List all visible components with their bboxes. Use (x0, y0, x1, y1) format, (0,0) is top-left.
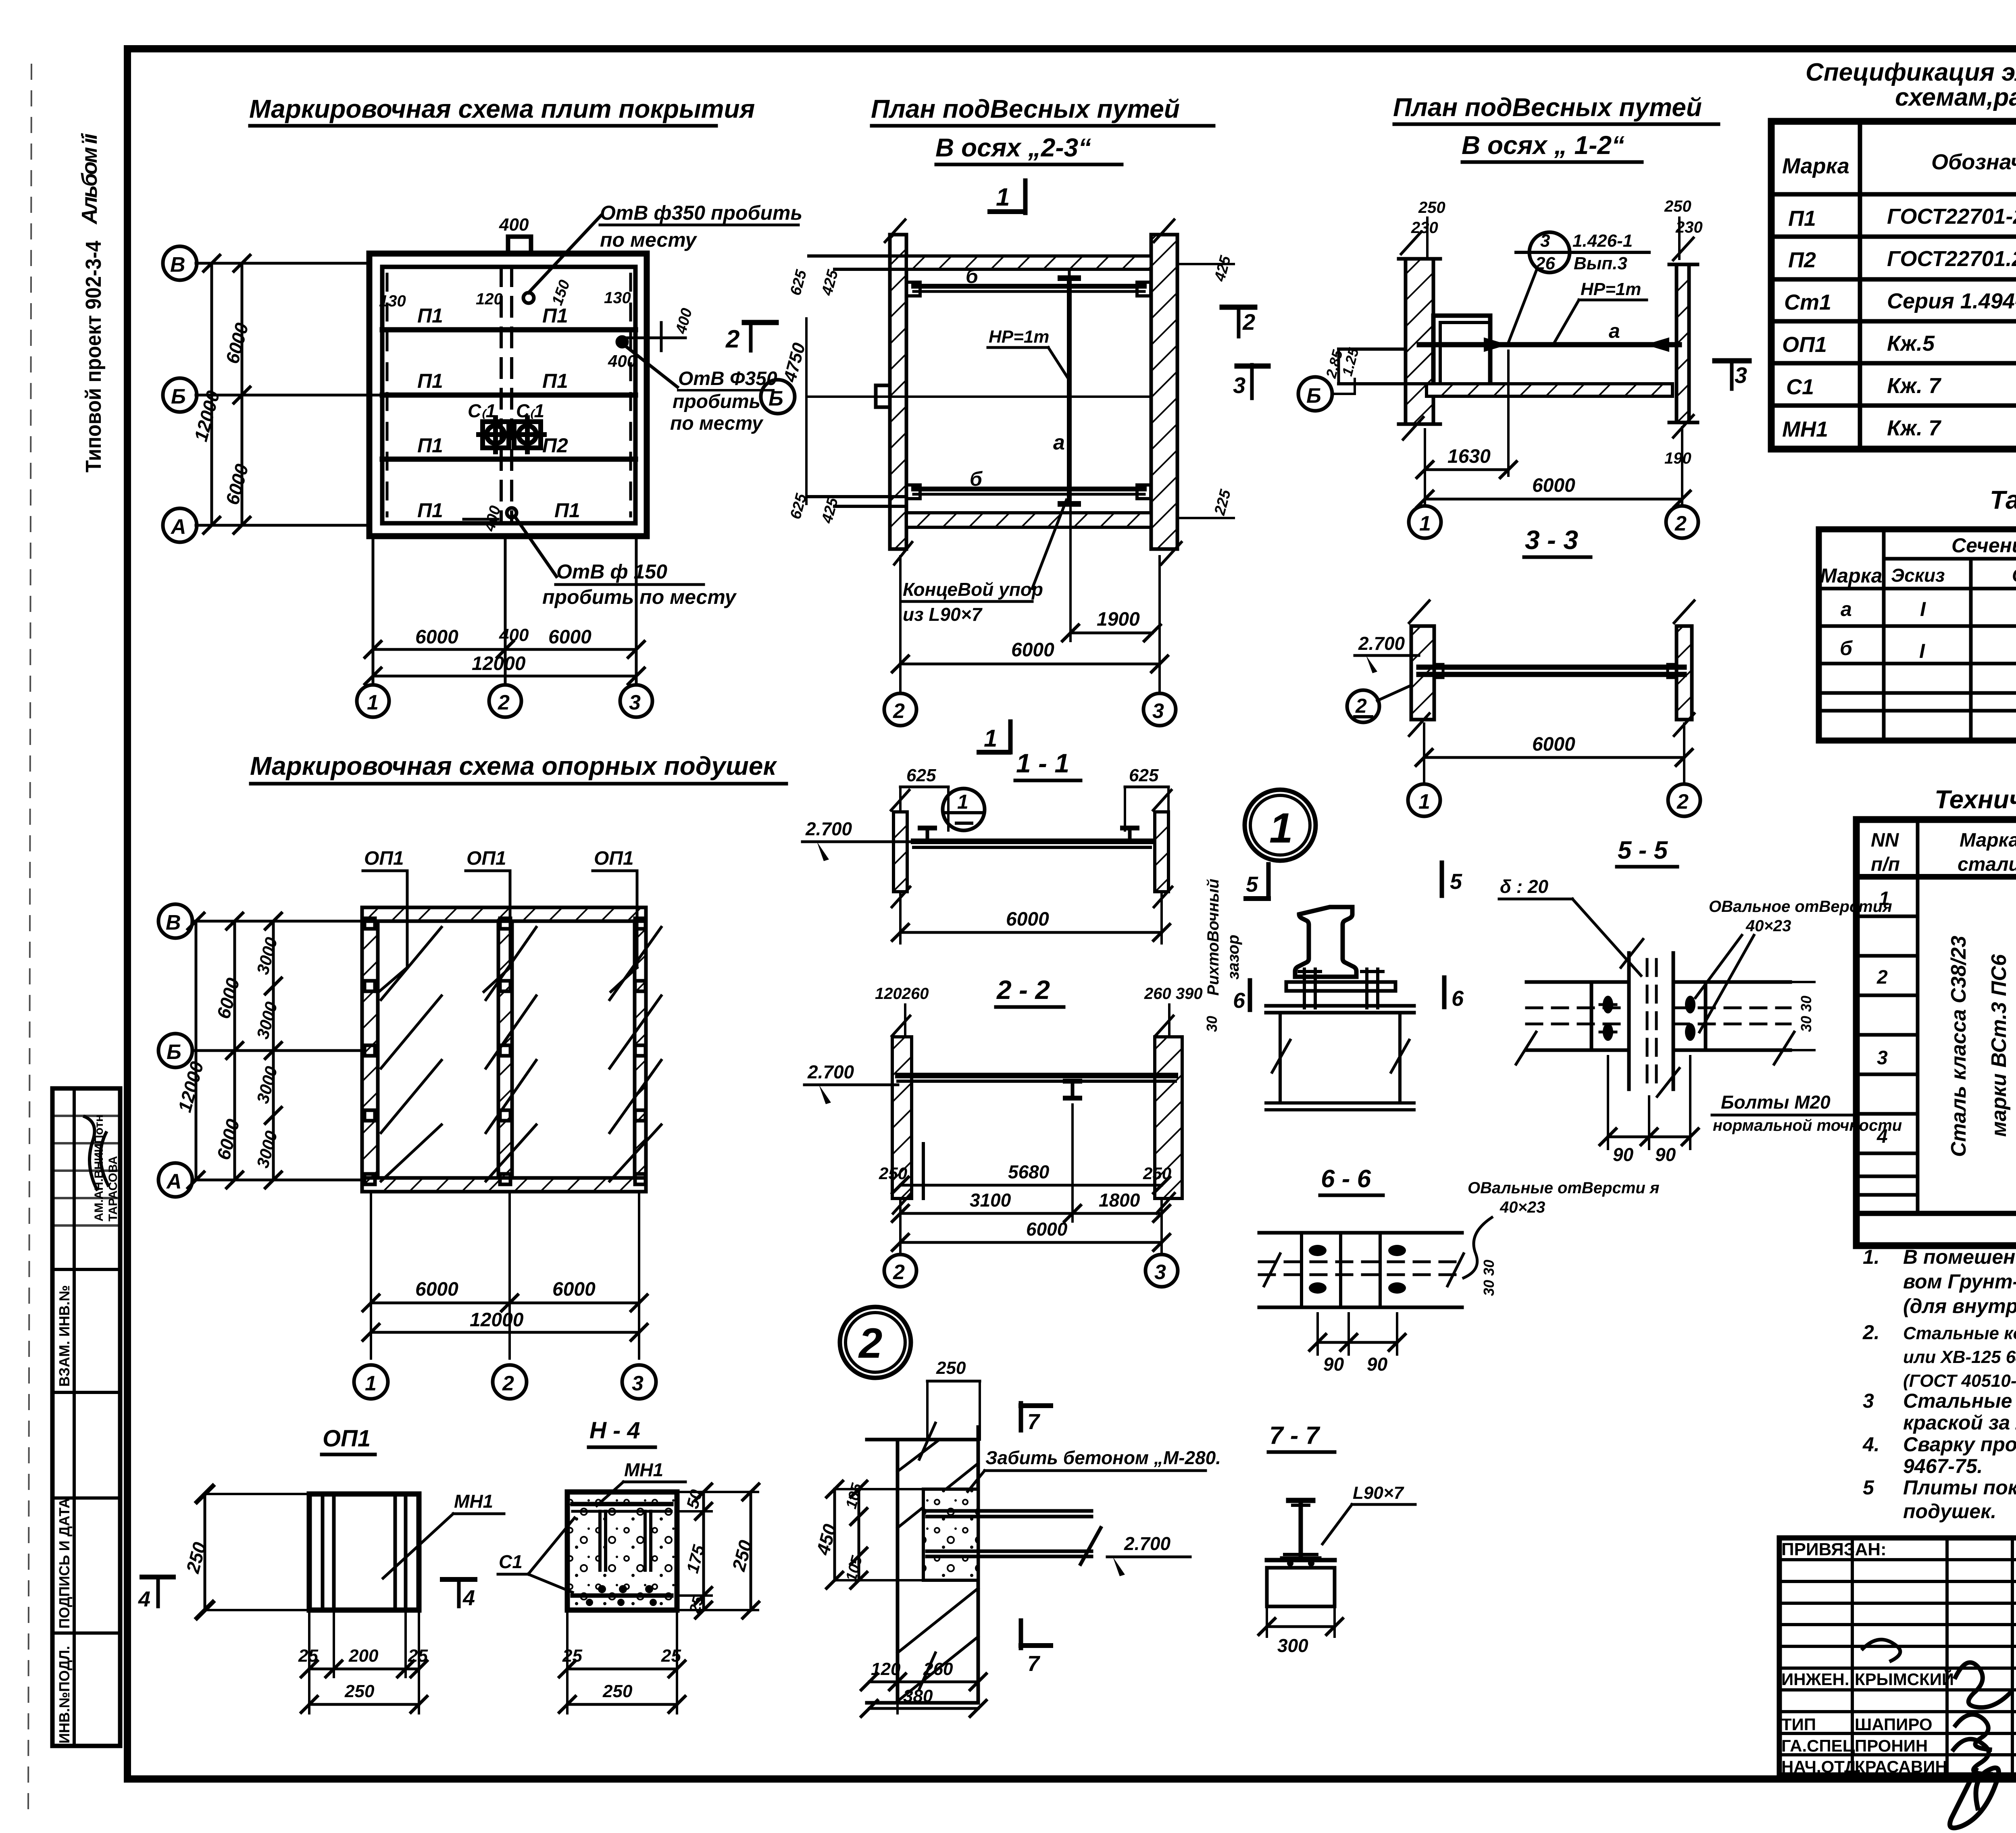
beam top flange (1266, 1004, 1414, 1008)
svg-text:ПРОНИН: ПРОНИН (1855, 1736, 1928, 1755)
bottom dim lines (373, 648, 636, 651)
svg-text:3100: 3100 (970, 1190, 1011, 1211)
vertical monorail beam a (1067, 278, 1072, 504)
svg-text:90: 90 (1367, 1354, 1388, 1375)
svg-text:1: 1 (957, 791, 968, 813)
svg-text:6000: 6000 (221, 320, 252, 366)
svg-text:7 - 7: 7 - 7 (1269, 1422, 1320, 1450)
svg-text:90: 90 (1613, 1144, 1634, 1165)
svg-text:260 390: 260 390 (1144, 985, 1203, 1003)
svg-text:Типовой проект 902-3-4: Типовой проект 902-3-4 (81, 241, 106, 472)
svg-text:5680: 5680 (1008, 1161, 1050, 1182)
svg-text:200: 200 (348, 1646, 379, 1666)
svg-text:250: 250 (879, 1164, 907, 1183)
svg-text:δ : 20: δ : 20 (1500, 876, 1549, 897)
svg-text:А: А (166, 1170, 182, 1193)
left ledge slab (1339, 347, 1406, 351)
svg-text:1: 1 (1269, 805, 1293, 852)
svg-text:ОП1: ОП1 (1782, 333, 1827, 357)
svg-text:МН1: МН1 (454, 1491, 493, 1512)
svg-text:из L90×7: из L90×7 (903, 604, 983, 625)
Б axis (806, 395, 1151, 398)
svg-text:Маркировочная схема плит покры: Маркировочная схема плит покрытия (249, 94, 755, 123)
vertical beam (1627, 953, 1631, 1089)
diagonal leaders inside bays (381, 927, 661, 1181)
svg-text:250: 250 (936, 1358, 966, 1378)
svg-text:230: 230 (1411, 219, 1438, 237)
svg-text:Б: Б (167, 1040, 181, 1064)
svg-text:3: 3 (1540, 231, 1550, 251)
svg-text:6000: 6000 (1026, 1219, 1068, 1240)
plate labels (379, 289, 631, 522)
right 30/30 (1790, 981, 1814, 983)
svg-text:а: а (1841, 598, 1852, 620)
6000 dim (899, 892, 902, 943)
svg-text:Серия 1.494-24: Серия 1.494-24 (1887, 289, 2016, 313)
svg-text:ОтВ ф 150: ОтВ ф 150 (556, 560, 667, 583)
callout circle 1 (943, 789, 985, 830)
svg-text:или ХВ-125 64 слоя (ГОСТ 10144: или ХВ-125 64 слоя (ГОСТ 10144-74) по гр… (1903, 1347, 2016, 1367)
svg-text:вом Грунт-лак КСПЭ В 1слой, по: вом Грунт-лак КСПЭ В 1слой, покрывной сл… (1903, 1270, 2016, 1293)
hole f350 top (523, 293, 534, 303)
bearing pads squares (364, 918, 646, 1184)
svg-text:С1: С1 (499, 1551, 523, 1572)
svg-text:25: 25 (298, 1646, 318, 1666)
svg-text:РихтоВочный: РихтоВочный (1204, 879, 1222, 996)
svg-text:6: 6 (1452, 986, 1464, 1011)
right wall hatched (1677, 264, 1689, 422)
svg-text:П1: П1 (542, 370, 568, 392)
svg-text:1.426-1: 1.426-1 (1572, 231, 1633, 251)
svg-text:I: I (1919, 640, 1925, 662)
svg-text:2: 2 (1876, 967, 1888, 988)
svg-text:400: 400 (673, 306, 696, 336)
svg-text:П1: П1 (1788, 206, 1816, 231)
svg-text:3000: 3000 (253, 935, 281, 976)
svg-text:В осях „2-3“: В осях „2-3“ (935, 133, 1091, 162)
svg-text:3: 3 (632, 1372, 644, 1395)
svg-text:П1: П1 (417, 499, 443, 522)
concrete pocket (923, 1489, 978, 1580)
svg-text:400: 400 (608, 352, 636, 370)
svg-text:1900: 1900 (1097, 609, 1140, 630)
svg-text:П1: П1 (417, 434, 443, 457)
left signature table (1779, 1538, 2016, 1775)
svg-text:NN: NN (1871, 830, 1899, 851)
svg-text:ИНВ.№ПОДЛ.: ИНВ.№ПОДЛ. (56, 1646, 73, 1744)
svg-text:П1: П1 (554, 499, 580, 522)
svg-text:90: 90 (1323, 1354, 1344, 1375)
svg-text:625: 625 (1129, 766, 1159, 785)
svg-text:4750: 4750 (780, 341, 809, 385)
svg-text:2.700: 2.700 (805, 818, 852, 839)
left dims 450/105 (833, 1489, 836, 1580)
bottom slab band hatched (906, 513, 1151, 527)
svg-text:стали: стали (1958, 854, 2016, 875)
svg-text:НР=1т: НР=1т (989, 327, 1049, 347)
svg-text:40×23: 40×23 (1745, 917, 1791, 935)
svg-text:625: 625 (787, 491, 810, 521)
svg-text:6000: 6000 (1006, 909, 1049, 930)
Н-4 dims bottom (566, 1610, 569, 1713)
section marks 2 and 3 right (1222, 305, 1255, 310)
svg-text:12000: 12000 (470, 1309, 524, 1331)
signatures squiggles (1956, 1662, 2010, 1708)
svg-text:ОВальное отВерстия: ОВальное отВерстия (1709, 898, 1892, 915)
svg-text:2: 2 (893, 1261, 905, 1284)
svg-text:Сечение: Сечение (1951, 534, 2016, 557)
svg-text:3: 3 (1152, 699, 1164, 723)
section 7 marks (1019, 1403, 1023, 1430)
6000 dim (1423, 724, 1425, 782)
svg-text:2: 2 (498, 691, 510, 714)
svg-text:2.: 2. (1862, 1321, 1880, 1344)
svg-text:425: 425 (818, 268, 841, 298)
beam web/bottom (1279, 1013, 1282, 1103)
rail profile (1295, 907, 1356, 977)
svg-text:6000: 6000 (212, 976, 244, 1021)
plate under rail (1286, 982, 1395, 991)
svg-text:В помешении хлордозаторной ж.б: В помешении хлордозаторной ж.б. конструк… (1903, 1246, 2016, 1268)
svg-text:6000: 6000 (548, 626, 591, 648)
svg-text:2.700: 2.700 (1124, 1533, 1171, 1554)
svg-text:6000: 6000 (1532, 475, 1575, 496)
svg-text:I: I (1920, 598, 1926, 620)
svg-text:3: 3 (629, 691, 641, 714)
svg-text:425: 425 (818, 495, 841, 525)
svg-text:260: 260 (923, 1659, 953, 1679)
Б circle left of plan C (1298, 377, 1332, 411)
svg-text:3000: 3000 (253, 1129, 281, 1170)
svg-text:краской за 2 раза по огрунтовк: краской за 2 раза по огрунтовке железным… (1903, 1411, 2016, 1434)
dashed center axis double (500, 267, 503, 523)
svg-text:6000: 6000 (552, 1279, 596, 1300)
svg-text:6000: 6000 (1532, 734, 1575, 755)
Н-4 dims right (702, 1492, 705, 1610)
dims bottom (1069, 508, 1072, 641)
svg-text:по месту: по месту (600, 229, 697, 251)
svg-text:2.700: 2.700 (1358, 633, 1405, 654)
svg-text:(для внутренних работ) - 3 сло: (для внутренних работ) - 3 слоя (1903, 1295, 2016, 1317)
svg-text:5: 5 (1863, 1476, 1874, 1499)
pilaster on left wall (876, 385, 890, 407)
top protrusion (508, 237, 531, 254)
bottom dims (370, 1192, 372, 1359)
beam a with arrows (1419, 342, 1679, 347)
svg-text:Б: Б (768, 387, 783, 410)
svg-text:П2: П2 (542, 434, 568, 457)
floor band hatched (1427, 384, 1672, 396)
svg-text:нормальной точности: нормальной точности (1713, 1117, 1902, 1134)
svg-text:В осях „ 1-2“: В осях „ 1-2“ (1462, 131, 1624, 160)
building outline inner (382, 267, 635, 523)
section 4 marks (142, 1575, 173, 1579)
svg-text:ПОДПИСЬ И ДАТА: ПОДПИСЬ И ДАТА (56, 1498, 73, 1629)
svg-text:ГОСТ22701.2-77: ГОСТ22701.2-77 (1887, 247, 2016, 271)
big circled 2 (840, 1307, 911, 1378)
svg-text:схемам,расположенным на листе.: схемам,расположенным на листе. (1895, 83, 2016, 111)
svg-text:а: а (1053, 431, 1065, 454)
svg-text:С₍1: С₍1 (468, 400, 496, 421)
svg-text:КРАСАВИН: КРАСАВИН (1855, 1757, 1947, 1776)
svg-text:5 - 5: 5 - 5 (1618, 836, 1668, 864)
svg-text:6000: 6000 (1011, 639, 1054, 661)
svg-text:30 30: 30 30 (1798, 996, 1814, 1032)
svg-text:5: 5 (1450, 870, 1462, 894)
svg-text:90: 90 (1655, 1144, 1676, 1165)
svg-text:400: 400 (499, 215, 529, 235)
svg-text:3: 3 (1877, 1047, 1888, 1069)
svg-text:п/п: п/п (1871, 854, 1900, 875)
wall (867, 1427, 978, 1703)
svg-text:Кж.5: Кж.5 (1887, 331, 1935, 356)
svg-text:подушек.: подушек. (1903, 1500, 1996, 1523)
top slab band hatched (906, 256, 1151, 269)
svg-text:2: 2 (502, 1372, 514, 1395)
svg-text:2.700: 2.700 (807, 1061, 854, 1082)
svg-text:Сварку производить электродами: Сварку производить электродами типа Э42 … (1903, 1433, 2016, 1456)
svg-text:НАЧ.ОТД.: НАЧ.ОТД. (1781, 1757, 1861, 1776)
svg-text:450: 450 (812, 1522, 840, 1558)
svg-text:Б: Б (1306, 384, 1321, 408)
svg-text:ПРИВЯЗАН:: ПРИВЯЗАН: (1781, 1540, 1887, 1559)
svg-text:ОП1: ОП1 (323, 1425, 371, 1452)
axis circles В Б А (163, 246, 197, 280)
svg-text:МН1: МН1 (1782, 417, 1828, 441)
callout circle 3/26 (1529, 232, 1570, 273)
svg-text:9467-75.: 9467-75. (1903, 1455, 1983, 1477)
svg-text:1800: 1800 (1099, 1190, 1140, 1211)
svg-text:250: 250 (344, 1681, 375, 1701)
walls hatched (362, 907, 646, 921)
svg-text:6000: 6000 (221, 462, 252, 507)
svg-text:Кж. 7: Кж. 7 (1887, 374, 1942, 398)
svg-text:В: В (166, 911, 181, 934)
svg-text:12000: 12000 (472, 653, 526, 674)
left vertical dim lines (210, 263, 213, 525)
svg-text:План подВесных путей: План подВесных путей (1393, 93, 1702, 122)
svg-text:ОВальные отВерсти я: ОВальные отВерсти я (1468, 1179, 1660, 1197)
left dim lines (195, 921, 198, 1180)
svg-text:Спецификация элементов к марки: Спецификация элементов к маркировочным (1806, 58, 2016, 86)
svg-text:а: а (1609, 320, 1620, 342)
svg-text:3 - 3: 3 - 3 (1525, 525, 1578, 555)
svg-text:Вып.3: Вып.3 (1574, 254, 1627, 273)
svg-text:6000: 6000 (415, 1279, 458, 1300)
walls (893, 812, 907, 892)
svg-text:2: 2 (1242, 309, 1255, 335)
svg-text:250: 250 (1418, 199, 1445, 216)
walls (892, 1037, 912, 1198)
svg-text:2: 2 (893, 699, 905, 723)
svg-text:С₍1: С₍1 (516, 400, 544, 421)
axes (192, 920, 362, 923)
top monorail beam б (914, 284, 1144, 289)
right wall hatched (1151, 235, 1177, 549)
svg-text:4.: 4. (1862, 1433, 1880, 1456)
svg-text:6000: 6000 (212, 1117, 244, 1162)
svg-text:марки ВСт.3 ПС6: марки ВСт.3 ПС6 (1987, 954, 2011, 1137)
svg-text:1630: 1630 (1447, 446, 1491, 467)
svg-text:4: 4 (138, 1587, 150, 1611)
svg-text:КРЫМСКИЙ: КРЫМСКИЙ (1855, 1669, 1954, 1689)
svg-text:250: 250 (1664, 198, 1691, 215)
svg-text:План подВесных путей: План подВесных путей (871, 94, 1180, 123)
svg-text:Таблица сечений: Таблица сечений (1990, 485, 2016, 514)
svg-text:3: 3 (1154, 1261, 1166, 1284)
svg-text:Плиты покрытия приварить к зак: Плиты покрытия приварить к закладным дет… (1903, 1476, 2016, 1499)
svg-text:25: 25 (661, 1646, 681, 1666)
svg-text:пробить по месту: пробить по месту (542, 586, 737, 608)
svg-text:1: 1 (367, 691, 379, 714)
4750 dim (805, 318, 808, 504)
svg-text:3: 3 (1233, 372, 1245, 398)
svg-text:1: 1 (996, 183, 1010, 211)
svg-text:26: 26 (1535, 254, 1555, 273)
dims (899, 1198, 902, 1254)
svg-text:4: 4 (462, 1586, 475, 1610)
svg-text:2 - 2: 2 - 2 (996, 975, 1050, 1005)
svg-text:250: 250 (1143, 1164, 1171, 1183)
svg-text:2: 2 (1674, 512, 1687, 535)
svg-text:380: 380 (903, 1686, 933, 1706)
svg-text:НР=1т: НР=1т (1581, 279, 1641, 299)
svg-text:Кж. 7: Кж. 7 (1887, 416, 1942, 440)
3-3 section drawing (1411, 626, 1434, 720)
hole f150 bottom (507, 508, 516, 518)
svg-text:Б: Б (171, 385, 186, 408)
svg-text:3000: 3000 (253, 1064, 281, 1105)
6-6 dims (1316, 1313, 1319, 1354)
svg-text:250: 250 (602, 1681, 633, 1701)
svg-text:3: 3 (1863, 1390, 1874, 1412)
rails (920, 828, 1137, 841)
svg-text:по месту: по месту (670, 413, 764, 434)
svg-text:ОтВ ф350 пробить: ОтВ ф350 пробить (600, 202, 802, 224)
beam (927, 1511, 1101, 1564)
svg-text:1: 1 (1419, 512, 1431, 535)
svg-text:(ГОСТ 40510-63*): (ГОСТ 40510-63*) (1903, 1371, 2016, 1391)
svg-text:105: 105 (843, 1481, 866, 1511)
svg-text:30: 30 (1204, 1016, 1220, 1032)
svg-text:1.: 1. (1863, 1246, 1880, 1268)
grid axis lines horizontal (196, 262, 369, 265)
right beam (1673, 980, 1790, 984)
svg-text:L90×7: L90×7 (1353, 1483, 1405, 1503)
svg-text:С1: С1 (1786, 375, 1814, 399)
ОП1 dims (204, 1494, 206, 1610)
svg-text:120: 120 (871, 1659, 901, 1679)
left wall hatched (890, 235, 906, 549)
svg-text:ОП1: ОП1 (467, 848, 506, 869)
svg-text:пробить: пробить (673, 391, 760, 412)
svg-text:425: 425 (1211, 254, 1234, 283)
dims below (1424, 429, 1426, 504)
svg-text:П2: П2 (1788, 248, 1816, 272)
90 90 dims (1607, 1056, 1609, 1149)
svg-text:ГА.СПЕЦ.: ГА.СПЕЦ. (1781, 1736, 1860, 1755)
svg-text:П1: П1 (417, 304, 443, 327)
left beam (1527, 980, 1629, 984)
svg-text:П1: П1 (417, 370, 443, 392)
svg-text:3: 3 (1735, 362, 1747, 388)
faint dashed paper edge left (28, 64, 31, 1814)
svg-text:Болты М20: Болты М20 (1721, 1092, 1831, 1113)
svg-text:2: 2 (725, 325, 739, 353)
svg-text:ШАПИРО: ШАПИРО (1855, 1715, 1933, 1734)
svg-text:Маркировочная схема опорных по: Маркировочная схема опорных подушек (250, 751, 777, 780)
svg-text:МН1: МН1 (624, 1459, 663, 1480)
svg-text:120260: 120260 (875, 985, 929, 1003)
svg-text:40×23: 40×23 (1500, 1198, 1545, 1216)
svg-text:6000: 6000 (415, 626, 458, 648)
svg-text:1: 1 (1418, 790, 1430, 814)
svg-text:7: 7 (1027, 1410, 1041, 1434)
svg-text:б: б (966, 265, 979, 287)
stakan C1 squares (479, 418, 544, 452)
svg-text:Техническая спецификация стали: Техническая спецификация стали (1935, 785, 2016, 814)
hole right wall f350 (617, 337, 627, 347)
svg-text:Забить бетоном „М-280.: Забить бетоном „М-280. (985, 1447, 1221, 1468)
beam (914, 838, 1150, 844)
svg-text:Альбом їі: Альбом їі (77, 133, 102, 225)
svg-text:ВЗАМ. ИНВ.№: ВЗАМ. ИНВ.№ (56, 1285, 73, 1387)
svg-text:30 30: 30 30 (1481, 1260, 1497, 1296)
svg-text:130: 130 (379, 292, 406, 310)
svg-text:Сталь класса С38/23: Сталь класса С38/23 (1947, 936, 1970, 1157)
svg-text:1: 1 (365, 1372, 377, 1395)
svg-text:Марка: Марка (1820, 564, 1882, 587)
svg-text:ИНЖЕН.: ИНЖЕН. (1781, 1670, 1849, 1689)
svg-text:2: 2 (858, 1320, 882, 1367)
beam (898, 1073, 1175, 1078)
svg-text:Н - 4: Н - 4 (589, 1417, 640, 1444)
svg-text:б: б (1840, 637, 1853, 660)
svg-text:ТАРАСОВА: ТАРАСОВА (106, 1156, 120, 1221)
bracket (end stop) (1433, 316, 1490, 395)
bottom extension lines (372, 536, 375, 685)
svg-text:25: 25 (562, 1646, 582, 1666)
bottom dims 120 260 380 (896, 1703, 899, 1713)
svg-text:В: В (170, 253, 185, 277)
svg-text:130: 130 (604, 289, 631, 307)
svg-text:ОП1: ОП1 (364, 848, 404, 869)
svg-text:625: 625 (787, 268, 810, 297)
svg-text:6 - 6: 6 - 6 (1321, 1165, 1371, 1193)
svg-text:ТИП: ТИП (1781, 1715, 1816, 1734)
svg-text:1 - 1: 1 - 1 (1016, 748, 1069, 778)
axis circles 1 2 3 (357, 685, 389, 717)
svg-text:зазор: зазор (1225, 935, 1242, 980)
svg-text:КонцеВой упор: КонцеВой упор (903, 579, 1043, 600)
building outline outer (369, 254, 647, 536)
ОП1 labels with leaders (364, 848, 634, 869)
svg-text:625: 625 (906, 766, 936, 785)
svg-text:Обозначение: Обозначение (1931, 150, 2016, 174)
big circled 1 (1245, 790, 1316, 861)
svg-text:150: 150 (549, 278, 573, 308)
svg-text:ОП1: ОП1 (594, 848, 634, 869)
svg-text:2: 2 (1677, 790, 1689, 814)
svg-text:Стальные конструкции после мон: Стальные конструкции после монтажа окрас… (1903, 1390, 2016, 1412)
left wall hatched (1406, 259, 1433, 424)
svg-text:120: 120 (476, 290, 503, 308)
svg-text:Стальные конструкции В помешен: Стальные конструкции В помешении хлордоз… (1903, 1323, 2016, 1343)
svg-text:б: б (970, 468, 983, 490)
svg-text:Эскиз: Эскиз (1891, 565, 1945, 586)
svg-text:3000: 3000 (253, 1000, 281, 1041)
top small dims (1411, 198, 1703, 237)
